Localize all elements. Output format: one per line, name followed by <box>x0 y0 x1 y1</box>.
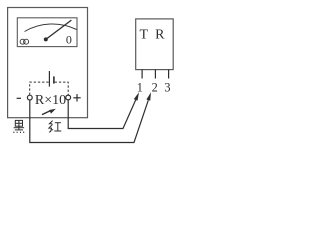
dashed internal wire <box>30 82 68 95</box>
label red lead <box>49 121 61 133</box>
meter face box <box>17 18 77 47</box>
svg-text:R×10: R×10 <box>35 93 66 108</box>
positive terminal <box>66 95 71 100</box>
svg-text:2: 2 <box>152 81 158 95</box>
meter needle <box>46 20 72 39</box>
needle pivot dot <box>44 37 48 41</box>
transistor body box <box>136 19 174 70</box>
red lead arrowhead at pin 1 <box>134 92 139 100</box>
pin 3 lead <box>168 70 170 79</box>
svg-text:T: T <box>140 28 149 43</box>
plus sign <box>73 94 80 101</box>
infinity mark <box>20 39 29 44</box>
label black lead <box>14 120 24 133</box>
svg-text:R: R <box>155 28 165 43</box>
pin 2 lead <box>154 70 156 79</box>
red test lead wire <box>68 100 136 129</box>
black lead arrowhead at pin 2 <box>146 92 151 101</box>
meter scale arc <box>25 24 77 32</box>
range selector arrow <box>42 111 51 115</box>
negative terminal <box>27 95 32 100</box>
svg-text:0: 0 <box>66 33 72 47</box>
svg-text:3: 3 <box>164 81 170 95</box>
pin 1 lead <box>141 70 143 79</box>
svg-text:1: 1 <box>137 81 143 95</box>
battery cell positive plate <box>48 71 50 87</box>
minus sign <box>17 97 21 99</box>
battery cell negative plate <box>53 76 55 83</box>
black test lead wire <box>30 100 149 143</box>
multimeter outer box <box>8 8 88 118</box>
